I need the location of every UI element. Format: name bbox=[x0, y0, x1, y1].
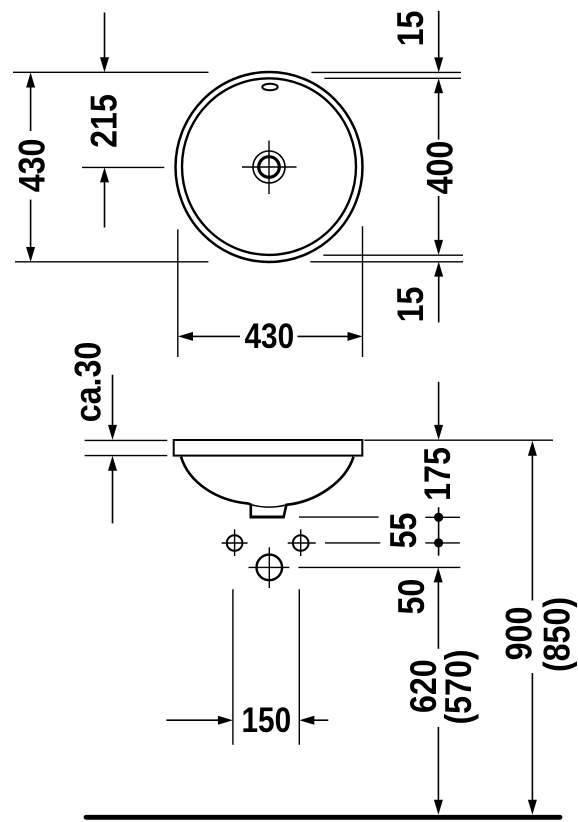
svg-text:430: 430 bbox=[12, 139, 53, 193]
top tangent reference line right (inner) bbox=[324, 77, 461, 79]
svg-text:400: 400 bbox=[420, 141, 461, 195]
svg-text:(850): (850) bbox=[537, 597, 578, 672]
svg-text:150: 150 bbox=[241, 701, 291, 740]
faucet hole left bbox=[227, 535, 243, 551]
drain outer circle bbox=[253, 151, 285, 183]
floor line bbox=[86, 815, 560, 820]
svg-text:(570): (570) bbox=[439, 649, 480, 724]
drain hole front bbox=[257, 555, 283, 581]
svg-text:50: 50 bbox=[392, 579, 433, 615]
drain bottom edge thick bbox=[250, 516, 285, 519]
washbasin outer rim ellipse bbox=[176, 72, 363, 262]
bottom tangent reference line left bbox=[15, 261, 208, 263]
counter rim bar bbox=[174, 440, 363, 456]
drain inner circle bbox=[259, 157, 280, 178]
dimension 400 right vertical bbox=[420, 78, 461, 255]
dimension 50 arrow and 620 line bbox=[434, 567, 443, 814]
centerline left of circle bbox=[82, 166, 164, 168]
overflow hole bbox=[262, 84, 277, 91]
bottom tangent reference line right (outer) bbox=[310, 261, 463, 263]
top tangent reference line left bbox=[13, 71, 209, 73]
svg-text:ca.30: ca.30 bbox=[68, 342, 109, 423]
svg-text:430: 430 bbox=[244, 317, 294, 356]
svg-text:15: 15 bbox=[391, 287, 432, 323]
faucet hole right bbox=[293, 535, 309, 551]
washbasin inner rim ellipse bbox=[182, 78, 356, 255]
svg-text:175: 175 bbox=[418, 447, 459, 501]
drain inner arc bbox=[251, 505, 286, 508]
svg-text:15: 15 bbox=[391, 11, 432, 47]
dimension 150 bbox=[166, 589, 328, 745]
dimension 430 bottom horizontal bbox=[178, 317, 363, 356]
dimension 430 left vertical bbox=[12, 73, 53, 263]
dimension 15 bottom bbox=[391, 262, 443, 323]
svg-text:215: 215 bbox=[84, 94, 125, 148]
extension line right for 430 width bbox=[362, 226, 364, 357]
dimension 175 bbox=[418, 382, 459, 501]
svg-text:900: 900 bbox=[500, 607, 541, 661]
top tangent reference line right (outer) bbox=[311, 71, 461, 73]
extension line left for 430 width bbox=[177, 229, 179, 357]
svg-text:55: 55 bbox=[384, 513, 425, 549]
dimension 15 top bbox=[391, 11, 443, 73]
reference line drain hole level bbox=[298, 566, 460, 568]
basin bowl profile with drain bbox=[181, 457, 354, 517]
drain crosshair horizontal bbox=[242, 166, 297, 168]
dimension ca.30 arrows bbox=[108, 375, 117, 524]
drain crosshair vertical bbox=[268, 141, 270, 195]
reference line faucet holes level bbox=[325, 542, 380, 544]
reference line drain bottom level bbox=[299, 516, 379, 518]
bottom tangent reference line right (inner) bbox=[323, 254, 463, 256]
dimension 215 bbox=[84, 13, 125, 228]
rim bottom short reference line bbox=[85, 455, 168, 457]
dimension 900 line bbox=[528, 441, 537, 815]
chain dimension dots bbox=[425, 507, 460, 555]
rim top reference line right extension bbox=[364, 439, 553, 441]
rim top short reference line bbox=[85, 439, 168, 441]
